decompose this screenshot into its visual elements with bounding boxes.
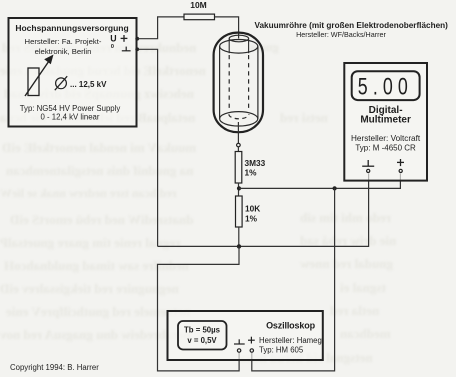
svg-text:Typ: NG54 HV Power Supply: Typ: NG54 HV Power Supply	[20, 104, 121, 113]
terminal ground symbol	[122, 47, 131, 51]
wire 10K to ground bus	[238, 227, 240, 246]
svg-text:Typ: M -4650 CR: Typ: M -4650 CR	[355, 144, 416, 153]
junction dot oscilloscope branch	[333, 186, 337, 190]
wire from 0 terminal down left side	[138, 49, 158, 246]
svg-text:Multimeter: Multimeter	[360, 115, 411, 126]
connector node circle	[237, 143, 241, 147]
ground bus wire	[158, 174, 369, 247]
wire from U+ terminal up to 10M	[138, 17, 184, 39]
multimeter reading 5.00	[358, 74, 413, 100]
svg-text:Copyright 1994: B. Harrer: Copyright 1994: B. Harrer	[10, 363, 99, 372]
range symbol (circle with slash)	[55, 76, 67, 90]
tube outer electrode cylinder side right	[257, 46, 259, 119]
multimeter ground symbol	[362, 160, 374, 166]
tube inner electrode top ellipse	[229, 35, 248, 42]
svg-text:5.00: 5.00	[358, 74, 413, 100]
wire from 10M to tube top	[215, 17, 239, 39]
svg-text:1%: 1%	[245, 168, 258, 178]
svg-text:Hersteller: WF/Backs/Harrer: Hersteller: WF/Backs/Harrer	[296, 30, 386, 39]
terminal plus symbol	[121, 35, 128, 42]
svg-text:Tb = 50µs: Tb = 50µs	[184, 326, 221, 335]
wire oscilloscope plus to junction	[252, 188, 335, 371]
svg-text:... 12,5 kV: ... 12,5 kV	[70, 80, 107, 89]
resistor 3M33	[235, 152, 242, 184]
wire from tube bottom to node	[237, 122, 239, 143]
wire junction to multimeter plus	[239, 174, 400, 189]
multimeter display bezel	[352, 71, 420, 100]
tube inner electrode bottom dashed arc	[229, 114, 249, 119]
oscilloscope box	[168, 311, 323, 360]
svg-text:10M: 10M	[190, 0, 207, 10]
svg-text:Hersteller: Fa. Projekt-: Hersteller: Fa. Projekt-	[25, 37, 102, 46]
svg-text:v = 0,5V: v = 0,5V	[187, 336, 217, 345]
wire node to 3M33	[237, 147, 239, 152]
tube outer electrode top ellipse	[220, 40, 258, 54]
wire oscilloscope ground loop	[158, 246, 240, 371]
svg-text:Hersteller: Hameg: Hersteller: Hameg	[259, 336, 322, 345]
tube outer electrode bottom ellipse	[220, 112, 258, 126]
svg-text:Hochspannungsversorgung: Hochspannungsversorgung	[15, 23, 128, 33]
oscilloscope terminal circle plus	[250, 349, 253, 352]
svg-text:Hersteller: Voltcraft: Hersteller: Voltcraft	[351, 134, 421, 143]
resistor 10M	[184, 14, 215, 20]
wire 3M33 to 10K	[238, 183, 240, 196]
tube inner electrode side dashed right	[248, 55, 250, 112]
tube inner electrode side dashed left	[228, 55, 230, 112]
digital multimeter box	[344, 63, 427, 181]
multimeter terminal circle ground	[367, 169, 370, 172]
junction dot on ground bus	[237, 244, 241, 248]
svg-text:0: 0	[111, 44, 114, 50]
svg-text:10K: 10K	[245, 204, 260, 214]
resistor 10K	[236, 196, 243, 227]
variable resistor arrow	[25, 55, 54, 97]
terminal dot 0	[135, 47, 139, 51]
tube outer electrode cylinder side left	[219, 46, 221, 119]
svg-text:Vakuumröhre (mit großen Elektr: Vakuumröhre (mit großen Elektrodenoberfl…	[255, 21, 449, 30]
svg-text:0 - 12,4 kV linear: 0 - 12,4 kV linear	[41, 113, 100, 122]
svg-text:Oszilloskop: Oszilloskop	[266, 321, 316, 331]
svg-text:U: U	[110, 34, 116, 44]
tube inner electrode side solid left	[228, 39, 230, 54]
tube inner electrode side solid right	[248, 39, 250, 54]
multimeter terminal circle plus	[399, 169, 402, 172]
svg-text:3M33: 3M33	[245, 158, 266, 168]
oscilloscope settings panel	[178, 321, 227, 350]
oscilloscope ground symbol	[234, 339, 245, 344]
multimeter plus symbol	[397, 159, 404, 166]
svg-text:1%: 1%	[245, 213, 258, 223]
oscilloscope terminal circle ground	[237, 349, 240, 352]
svg-text:Typ: HM 605: Typ: HM 605	[259, 346, 304, 355]
junction dot between 3M33 and 10K	[237, 186, 241, 190]
terminal dot U+	[135, 37, 139, 41]
power supply box (Hochspannungsversorgung)	[9, 18, 137, 127]
variable resistor symbol	[28, 68, 39, 96]
oscilloscope plus symbol	[248, 337, 255, 344]
svg-text:elektronik, Berlin: elektronik, Berlin	[35, 47, 92, 56]
vacuum tube envelope	[214, 33, 263, 133]
